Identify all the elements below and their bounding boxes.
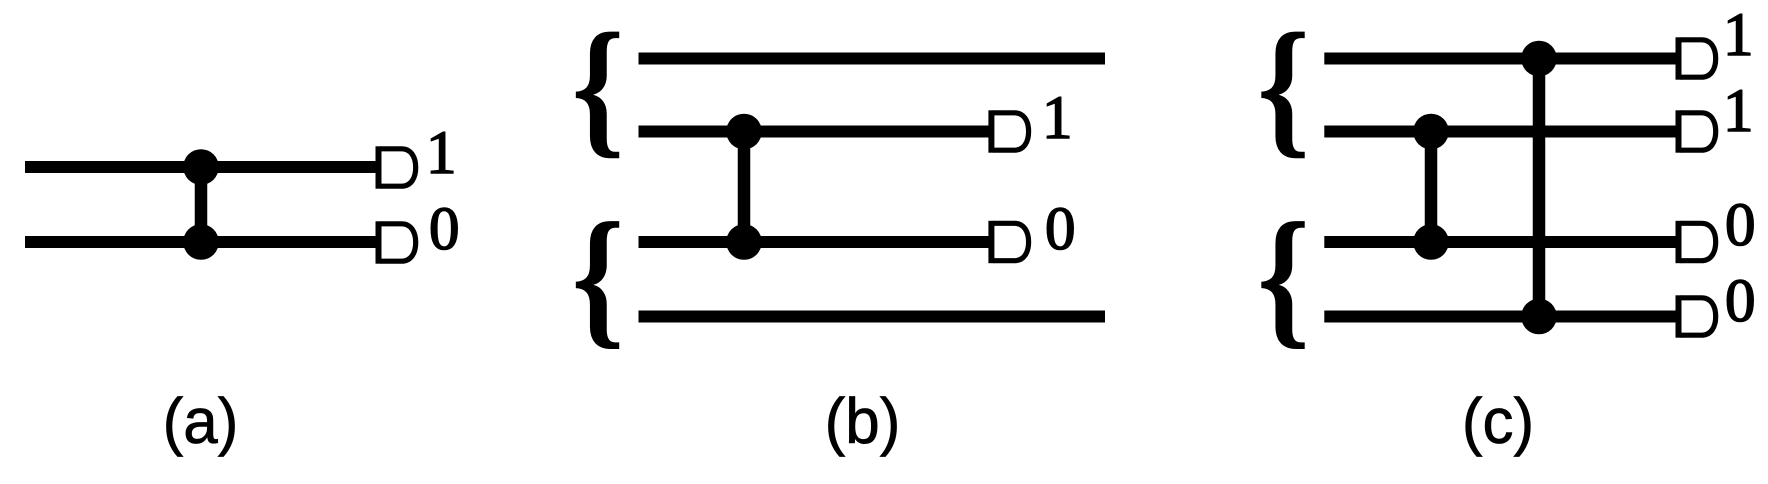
wire b4 bbox=[639, 311, 1106, 323]
svg-text:1: 1 bbox=[426, 120, 457, 187]
wire a-top bbox=[25, 161, 378, 173]
svg-text:(a): (a) bbox=[163, 386, 239, 457]
junction dot a-bottom bbox=[183, 224, 219, 260]
svg-text:1: 1 bbox=[1042, 85, 1073, 152]
svg-text:0: 0 bbox=[1725, 268, 1756, 335]
wire c2 bbox=[1324, 126, 1680, 138]
svg-text:(c): (c) bbox=[1462, 386, 1534, 457]
svg-text:{: { bbox=[572, 192, 625, 363]
detector D a-top bbox=[376, 146, 416, 188]
wire a-bottom bbox=[25, 236, 378, 248]
svg-text:0: 0 bbox=[1045, 196, 1076, 263]
wire c1 bbox=[1324, 53, 1680, 65]
svg-text:0: 0 bbox=[1725, 192, 1756, 259]
wire b1 bbox=[639, 53, 1106, 65]
svg-text:(b): (b) bbox=[825, 386, 901, 457]
svg-text:{: { bbox=[1257, 192, 1310, 363]
detector D c1 bbox=[1676, 37, 1716, 79]
junction dot c-left-bottom bbox=[1413, 224, 1449, 260]
wire b2 bbox=[639, 126, 994, 138]
junction dot c-left-top bbox=[1413, 114, 1449, 150]
detector D c3 bbox=[1676, 221, 1716, 263]
detector D a-bottom bbox=[376, 221, 416, 263]
junction dot c-right-top bbox=[1521, 41, 1557, 77]
detector D c2 bbox=[1676, 110, 1716, 152]
wire vertical connector c-right bbox=[1533, 59, 1546, 317]
svg-text:1: 1 bbox=[1723, 2, 1754, 69]
junction dot a-top bbox=[183, 149, 219, 185]
detector D c4 bbox=[1676, 295, 1716, 337]
svg-text:1: 1 bbox=[1723, 78, 1754, 145]
svg-text:0: 0 bbox=[429, 196, 460, 263]
junction dot c-right-bottom bbox=[1521, 299, 1557, 335]
svg-text:{: { bbox=[1257, 3, 1310, 172]
wire vertical connector a bbox=[195, 167, 208, 242]
junction dot b-top bbox=[726, 114, 762, 150]
wire vertical connector b bbox=[738, 132, 751, 243]
detector D b3 bbox=[988, 221, 1028, 263]
wire c3 bbox=[1324, 236, 1680, 248]
detector D b2 bbox=[988, 110, 1028, 152]
wire vertical connector c-left bbox=[1425, 132, 1438, 243]
wire b3 bbox=[639, 236, 994, 248]
wire c4 bbox=[1324, 311, 1680, 323]
junction dot b-bottom bbox=[726, 224, 762, 260]
svg-text:{: { bbox=[572, 3, 625, 172]
